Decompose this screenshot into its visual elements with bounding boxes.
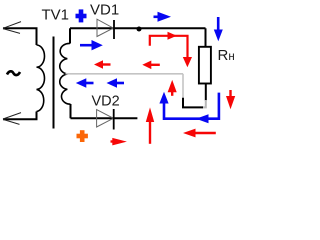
arrow blue path bottom-right — [159, 92, 219, 123]
wire gray center tap — [66, 73, 184, 75]
arrow blue right top — [154, 12, 172, 22]
arrow red right below VD2 — [111, 138, 127, 146]
arrow red down right — [226, 90, 235, 109]
wire gray elbow bottom right — [203, 100, 207, 107]
arrow red up mid-right — [168, 80, 177, 96]
secondary winding lower half — [60, 74, 71, 104]
wire resistor bottom — [205, 84, 207, 101]
arrow red path top-right — [150, 32, 192, 67]
svg-text:VD1: VD1 — [90, 2, 119, 19]
diode VD2 cathode bar — [113, 109, 115, 130]
wire VD2 rail — [71, 117, 138, 119]
plus sign orange — [77, 130, 88, 142]
arrow red up bottom-center — [146, 107, 154, 143]
arrow blue right under VD1 — [80, 40, 103, 50]
plus sign blue — [76, 9, 87, 22]
node junction dot — [137, 27, 142, 32]
wire top-left input — [3, 28, 37, 45]
input arrow bottom — [3, 113, 21, 125]
primary winding — [37, 45, 45, 112]
wire gray return vertical — [182, 74, 184, 98]
arrow red left mid — [142, 61, 160, 70]
svg-text:VD2: VD2 — [92, 94, 120, 110]
wire bottom return black — [183, 97, 203, 107]
arrow red left secondary top — [94, 60, 111, 69]
svg-text:TV1: TV1 — [42, 7, 70, 24]
secondary bottom terminal wire — [70, 104, 72, 118]
arrow blue left mid 1 — [76, 78, 94, 87]
diode VD1 — [97, 19, 113, 36]
arrow blue down top-right — [214, 17, 223, 41]
secondary top terminal wire — [69, 28, 71, 43]
resistor Rн — [199, 47, 211, 84]
core — [53, 37, 55, 129]
AC source symbol ~ — [7, 71, 20, 75]
wire bottom-left input — [3, 112, 37, 120]
arrow blue left mid 2 — [107, 78, 125, 87]
arrow red left bottom-right — [183, 129, 216, 138]
diode VD2 — [97, 110, 114, 127]
input arrow top — [3, 22, 21, 34]
top rail wire — [70, 27, 206, 29]
wire top rail to resistor — [205, 28, 207, 47]
diode VD1 cathode bar — [113, 20, 115, 39]
secondary winding upper half — [60, 43, 70, 73]
